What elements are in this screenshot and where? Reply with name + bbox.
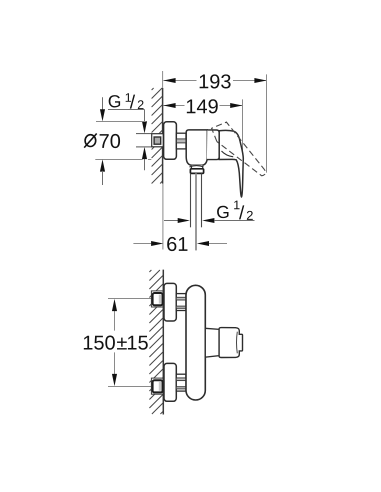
wall hatching (front view) <box>149 270 162 414</box>
outlet neck <box>191 165 203 169</box>
wall extension line down to 61 dimension <box>162 184 164 250</box>
dimension 150 ±15 <box>84 299 152 387</box>
wall face line (side view) <box>162 71 164 88</box>
lever handle (side view) <box>219 130 243 197</box>
extension line right (193, lever tip) <box>266 74 268 172</box>
connection nut bottom (front view) <box>176 374 186 391</box>
wall hatching (side view) <box>152 88 163 184</box>
mixer body (side view) <box>186 130 207 165</box>
escutcheon top (front view) <box>164 283 176 321</box>
connection nut top (front view) <box>176 294 186 311</box>
lever stem (front view) <box>205 328 219 357</box>
mixer body capsule (front view) <box>186 285 205 400</box>
outlet pipe / shower hose connection <box>191 173 202 250</box>
union square bottom (front view) <box>151 378 163 394</box>
dimension G 1/2 outlet <box>164 218 255 223</box>
label G 1/2 (outlet thread) <box>217 201 253 220</box>
dimension 193 <box>163 74 266 88</box>
union square top (front view) <box>151 291 163 307</box>
connection nut (side view) <box>176 133 186 149</box>
escutcheon Ø70 (side view) <box>164 122 177 160</box>
wall face line (front view) <box>162 270 164 415</box>
leader line G 1/2 top <box>108 110 147 134</box>
label G 1/2 (wall union thread) <box>109 93 144 109</box>
union square (S-union in wall) <box>152 134 164 147</box>
escutcheon bottom (front view) <box>164 363 176 401</box>
extension line right (149, handle front) <box>242 99 244 191</box>
dimension Ø 70 <box>84 97 151 185</box>
dimension 61 <box>133 237 227 251</box>
leader arrow G 1/2 lower <box>142 147 147 170</box>
lever handle raised position (dashed) <box>212 122 266 176</box>
extension lines of union square <box>136 134 152 147</box>
lever grip (front view) <box>219 328 242 358</box>
outlet nipple <box>190 169 203 174</box>
dimension 149 <box>163 99 242 113</box>
cartridge cap <box>207 130 219 160</box>
